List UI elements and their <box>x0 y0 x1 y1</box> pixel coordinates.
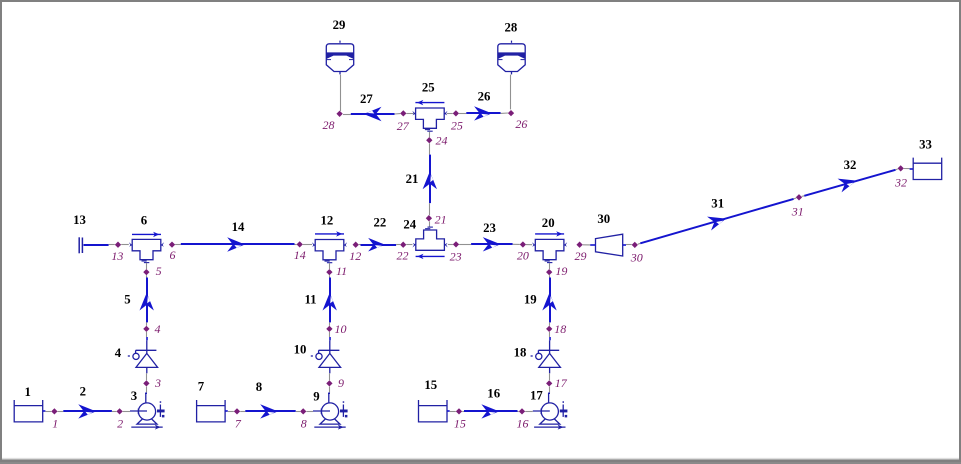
svg-text:32: 32 <box>844 158 857 172</box>
svg-text:27: 27 <box>360 92 373 106</box>
svg-text:8: 8 <box>256 380 262 394</box>
svg-text:3: 3 <box>154 376 161 390</box>
svg-text:29: 29 <box>333 18 346 32</box>
svg-text:21: 21 <box>406 172 419 186</box>
svg-text:13: 13 <box>73 213 86 227</box>
svg-text:6: 6 <box>170 248 176 262</box>
svg-text:21: 21 <box>435 212 447 226</box>
svg-text:25: 25 <box>422 81 435 95</box>
svg-text:30: 30 <box>630 250 643 264</box>
svg-text:33: 33 <box>919 138 932 152</box>
svg-text:24: 24 <box>403 218 416 232</box>
svg-text:6: 6 <box>141 214 148 228</box>
svg-text:24: 24 <box>436 134 448 148</box>
svg-text:14: 14 <box>294 248 306 262</box>
svg-text:12: 12 <box>349 249 361 263</box>
svg-text:5: 5 <box>124 293 130 307</box>
svg-text:30: 30 <box>597 212 610 226</box>
svg-text:22: 22 <box>374 216 387 230</box>
svg-text:2: 2 <box>80 385 86 399</box>
svg-text:1: 1 <box>24 385 30 399</box>
svg-text:32: 32 <box>894 176 907 190</box>
svg-text:11: 11 <box>336 264 347 278</box>
svg-text:23: 23 <box>483 221 496 235</box>
svg-text:8: 8 <box>301 417 307 431</box>
svg-text:17: 17 <box>530 389 543 403</box>
svg-text:15: 15 <box>454 416 466 430</box>
svg-text:1: 1 <box>52 416 58 430</box>
svg-text:16: 16 <box>487 387 500 401</box>
svg-text:23: 23 <box>450 250 462 264</box>
svg-text:11: 11 <box>304 293 316 307</box>
svg-text:18: 18 <box>554 322 566 336</box>
svg-text:26: 26 <box>515 117 527 131</box>
svg-text:22: 22 <box>397 249 409 263</box>
svg-text:27: 27 <box>397 119 410 133</box>
svg-text:12: 12 <box>321 214 334 228</box>
svg-text:31: 31 <box>791 205 804 219</box>
svg-text:19: 19 <box>555 264 567 278</box>
svg-text:3: 3 <box>131 389 137 403</box>
svg-text:19: 19 <box>524 293 537 307</box>
svg-text:13: 13 <box>111 249 123 263</box>
svg-text:7: 7 <box>235 416 242 430</box>
svg-text:4: 4 <box>115 346 122 360</box>
svg-text:28: 28 <box>323 118 335 132</box>
svg-text:25: 25 <box>451 119 463 133</box>
svg-text:9: 9 <box>313 390 319 404</box>
svg-text:17: 17 <box>555 376 568 390</box>
svg-text:10: 10 <box>335 322 347 336</box>
svg-text:20: 20 <box>542 216 555 230</box>
svg-text:26: 26 <box>478 90 491 104</box>
svg-text:18: 18 <box>514 346 527 360</box>
svg-text:29: 29 <box>575 249 587 263</box>
svg-text:7: 7 <box>198 380 205 394</box>
svg-text:16: 16 <box>517 417 529 431</box>
svg-text:9: 9 <box>338 376 344 390</box>
svg-text:28: 28 <box>505 21 518 35</box>
svg-text:2: 2 <box>117 417 123 431</box>
svg-text:15: 15 <box>424 378 437 392</box>
svg-text:14: 14 <box>232 220 245 234</box>
svg-text:20: 20 <box>517 249 529 263</box>
svg-text:5: 5 <box>156 264 162 278</box>
svg-text:4: 4 <box>155 322 161 336</box>
svg-text:10: 10 <box>294 343 307 357</box>
svg-text:31: 31 <box>711 196 724 210</box>
